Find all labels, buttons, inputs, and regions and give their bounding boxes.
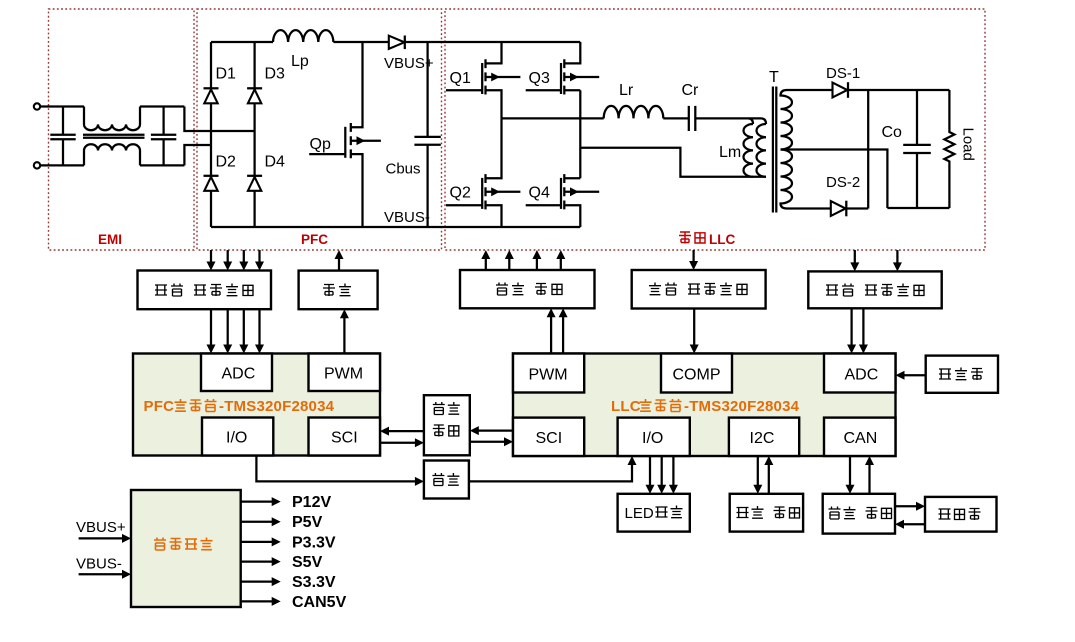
svg-text:Lr: Lr: [619, 82, 634, 99]
wire bridge right rail: [253, 42, 255, 227]
svg-text:D3: D3: [265, 66, 286, 83]
svg-text:ADC: ADC: [845, 367, 879, 384]
capacitor Cbus: [414, 42, 440, 227]
transformer T secondary winding: [781, 90, 793, 209]
svg-text:Q1: Q1: [450, 70, 471, 87]
svg-text:PWM: PWM: [529, 367, 568, 384]
block potentiometer: [926, 356, 998, 393]
inductor Lr: [604, 106, 664, 119]
label LLC controller name: [611, 398, 800, 415]
EMI stage dashed boundary box: [49, 9, 195, 250]
svg-text:Load: Load: [960, 128, 977, 161]
svg-text:I/O: I/O: [642, 430, 663, 447]
input terminal 2: [34, 162, 40, 168]
boost diode Dp: [389, 36, 405, 50]
svg-text:D2: D2: [216, 154, 237, 171]
svg-text:SCI: SCI: [536, 430, 563, 447]
wire arrow aux output P5V: [241, 517, 281, 526]
svg-text:VBUS+: VBUS+: [76, 519, 126, 536]
svg-text:Cbus: Cbus: [386, 161, 421, 178]
wire arrow resonant conv to COMP: [690, 309, 699, 354]
wire arrow aux output P12V: [241, 497, 281, 506]
wire arrows LLC output sense: [850, 250, 902, 271]
block PFC controller TMS320F28034: [133, 354, 380, 456]
wire arrow aux output S5V: [241, 557, 281, 566]
block ADC PFC: [201, 354, 272, 392]
block SCI PFC: [309, 418, 381, 456]
svg-text:Lp: Lp: [291, 53, 309, 70]
wire arrow drive to PFC stage: [335, 250, 344, 271]
wire secondary bottom to DS-2: [787, 207, 831, 209]
block isolated communication bottom: [823, 494, 895, 534]
wire arrow potentiometer to ADC: [896, 371, 926, 380]
block LED display: [618, 494, 690, 532]
inductor Lm: [744, 124, 754, 177]
svg-text:P3.3V: P3.3V: [292, 534, 336, 551]
label 全桥LLC: [679, 232, 735, 247]
wire output bottom rail: [887, 207, 949, 209]
inductor Lp: [273, 30, 333, 42]
wire arrows IO LLC to LED display: [646, 456, 678, 494]
wire arrow aux output P3.3V: [241, 537, 281, 546]
wire EMI output bottom to bridge node D1D2: [184, 145, 211, 165]
block isolation: [424, 461, 469, 499]
block ADC LLC: [824, 354, 896, 393]
svg-text:Q3: Q3: [529, 70, 550, 87]
diode DS-1: [833, 82, 849, 98]
wire line input top: [40, 105, 84, 107]
wire DS-2 cathode to rectified node: [846, 207, 868, 209]
svg-text:Co: Co: [882, 124, 903, 141]
transformer T core: [773, 87, 776, 213]
svg-text:T: T: [769, 69, 779, 86]
capacitor Co: [903, 90, 931, 208]
wire Cr to primary: [695, 118, 766, 124]
svg-text:I/O: I/O: [226, 430, 247, 447]
svg-text:D4: D4: [265, 154, 286, 171]
svg-text:SCI: SCI: [331, 430, 358, 447]
diode D4: [247, 176, 262, 191]
transistor Q2: [446, 118, 520, 227]
svg-text:PWM: PWM: [324, 366, 363, 383]
wire arrow PWM to drive: [340, 309, 349, 353]
full-bridge LLC stage dashed boundary box: [445, 9, 985, 250]
block CAN: [824, 418, 896, 456]
wire arrow isocomm to host: [895, 502, 925, 511]
svg-text:-TMS320F28034: -TMS320F28034: [219, 398, 335, 415]
block COMP: [661, 354, 732, 393]
block gate drive: [299, 271, 378, 310]
svg-text:Q2: Q2: [450, 185, 471, 202]
transistor Q3: [526, 42, 600, 95]
wire top rail PFC: [211, 41, 273, 43]
wire EMI output top to bridge node D3D4: [184, 107, 254, 132]
wire arrow isocomm to SCI LLC: [470, 437, 513, 446]
wire arrows conv to ADC2: [847, 308, 868, 353]
svg-text:S5V: S5V: [292, 554, 323, 571]
capacitor Cx2 stem: [162, 107, 164, 166]
wire boost diode to LLC top rail: [405, 41, 581, 43]
svg-text:VBUS-: VBUS-: [384, 209, 430, 226]
wire isolation to IO LLC: [469, 456, 637, 481]
svg-text:COMP: COMP: [673, 367, 721, 384]
wire arrows CAN isolated comm: [846, 456, 875, 494]
svg-text:CAN: CAN: [844, 430, 878, 447]
svg-text:Cr: Cr: [682, 82, 700, 99]
block voltage current conversion PFC: [138, 271, 272, 310]
wire Lp to boost diode: [333, 41, 388, 43]
svg-text:LLC: LLC: [709, 232, 735, 247]
diode DS-2: [831, 201, 847, 217]
diode D3: [247, 88, 262, 103]
diode D2: [204, 176, 219, 191]
wire arrow isocomm to SCI PFC: [380, 427, 424, 436]
svg-text:LED: LED: [625, 505, 654, 522]
svg-text:Q4: Q4: [529, 185, 550, 202]
transistor Qp: [309, 42, 381, 227]
wire arrow host to isocomm: [895, 520, 925, 529]
block voltage current conversion LLC: [808, 271, 941, 308]
svg-text:LLC: LLC: [611, 398, 641, 415]
svg-text:EMI: EMI: [98, 232, 122, 247]
block PWM PFC: [309, 354, 381, 392]
wire arrow VBUS+ to aux: [79, 534, 131, 543]
wire arrow aux output S3.3V: [241, 577, 281, 586]
CM choke bottom winding: [84, 144, 140, 165]
block IO LLC: [618, 418, 690, 456]
block IO PFC: [202, 418, 273, 456]
wire rectified output rail: [867, 90, 869, 209]
wire bottom rail PFC and LLC: [211, 226, 580, 228]
wire arrow aux output CAN5V: [241, 597, 281, 606]
block PWM LLC: [513, 354, 584, 393]
wire bridge left rail: [210, 42, 212, 227]
block I2C: [729, 418, 799, 456]
transistor Q4: [526, 174, 600, 227]
block isolated drive: [460, 270, 595, 308]
svg-text:PFC: PFC: [144, 398, 175, 415]
capacitor Cx1 plates: [50, 135, 75, 139]
wire arrow VBUS- to aux: [79, 570, 131, 579]
diode D1: [204, 88, 219, 103]
svg-text:CAN5V: CAN5V: [292, 594, 347, 611]
node arrows PFC sense to voltage-current converter: [207, 250, 265, 271]
wire line input bottom: [40, 164, 84, 166]
wire choke to cap2 bottom: [140, 164, 184, 166]
wire arrow SCI LLC to isocomm: [470, 426, 513, 435]
wire Lr to Cr: [663, 117, 688, 119]
block display screen: [730, 494, 803, 532]
block resonant current conversion: [632, 270, 766, 309]
block host computer: [925, 497, 997, 532]
transformer T primary winding: [757, 124, 767, 177]
wire Q3Q4 rail: [579, 90, 581, 178]
svg-text:P12V: P12V: [292, 494, 331, 511]
block isolated communication middle: [424, 395, 470, 455]
capacitor Cx1 stem: [62, 107, 64, 166]
wire arrows isolated drive to LLC gates: [481, 250, 565, 270]
wire arrows PWM2 to isolated drive: [547, 308, 568, 353]
block SCI LLC: [513, 418, 584, 456]
wire arrows I2C display screen: [753, 456, 773, 494]
wire arrows converter to ADC: [207, 309, 265, 353]
block LLC controller TMS320F28034: [513, 354, 896, 457]
svg-text:P5V: P5V: [292, 514, 323, 531]
wire choke to cap2 top: [140, 105, 184, 107]
wire bridge output node B return: [580, 148, 766, 177]
wire secondary top to DS-1: [787, 89, 833, 91]
input terminal 1: [34, 103, 40, 109]
wire IO PFC to isolation: [256, 456, 424, 486]
PFC stage dashed boundary box: [197, 9, 442, 250]
block auxiliary power supply: [131, 490, 241, 607]
svg-text:S3.3V: S3.3V: [292, 574, 336, 591]
wire DS-1 cathode to output top rail: [848, 89, 949, 91]
svg-text:I2C: I2C: [750, 430, 775, 447]
resistor Load: [944, 90, 954, 208]
svg-text:VBUS+: VBUS+: [384, 55, 434, 72]
transistor Q1: [446, 42, 520, 118]
svg-text:Qp: Qp: [310, 136, 331, 153]
label PFC controller name: [144, 398, 335, 415]
wire bridge output node A to Lr: [502, 117, 604, 119]
wire arrow SCI PFC to isocomm: [380, 438, 424, 447]
svg-text:D1: D1: [216, 66, 237, 83]
CM choke top winding: [84, 107, 140, 131]
svg-text:PFC: PFC: [301, 232, 328, 247]
svg-text:DS-1: DS-1: [826, 65, 860, 82]
CM choke core lines: [83, 135, 145, 138]
capacitor Cr: [689, 106, 696, 131]
svg-text:DS-2: DS-2: [826, 174, 860, 191]
capacitor Cx2 plates: [151, 135, 176, 139]
wire center tap: [781, 150, 888, 209]
svg-text:-TMS320F28034: -TMS320F28034: [684, 398, 800, 415]
svg-text:VBUS-: VBUS-: [76, 556, 122, 573]
svg-text:Lm: Lm: [719, 144, 741, 161]
wire arrow resonant current sense: [689, 250, 698, 270]
svg-text:ADC: ADC: [222, 366, 256, 383]
